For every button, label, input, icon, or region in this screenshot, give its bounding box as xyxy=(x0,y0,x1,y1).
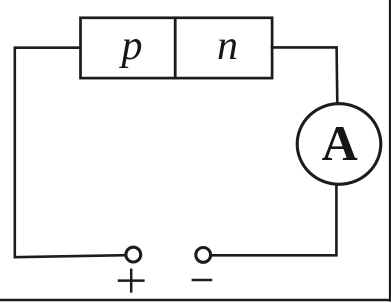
divider between p and n regions xyxy=(174,18,177,78)
minus sign label xyxy=(193,279,211,281)
svg-text:A: A xyxy=(322,115,358,171)
svg-text:p: p xyxy=(119,23,143,69)
frame border bottom xyxy=(0,299,391,301)
wire: left loop from p box to + terminal xyxy=(15,48,125,258)
p-n junction box outline xyxy=(81,18,273,78)
wire: ammeter bottom down and left to - terminal xyxy=(212,185,337,256)
plus sign label xyxy=(119,270,143,292)
terminal node + (battery positive) xyxy=(126,247,141,262)
ammeter U1 circle xyxy=(297,104,381,185)
svg-text:n: n xyxy=(217,23,238,69)
wire: from n box right edge to top-right corner xyxy=(272,47,337,103)
frame border right xyxy=(389,0,391,301)
terminal node - (battery negative) xyxy=(196,248,211,263)
